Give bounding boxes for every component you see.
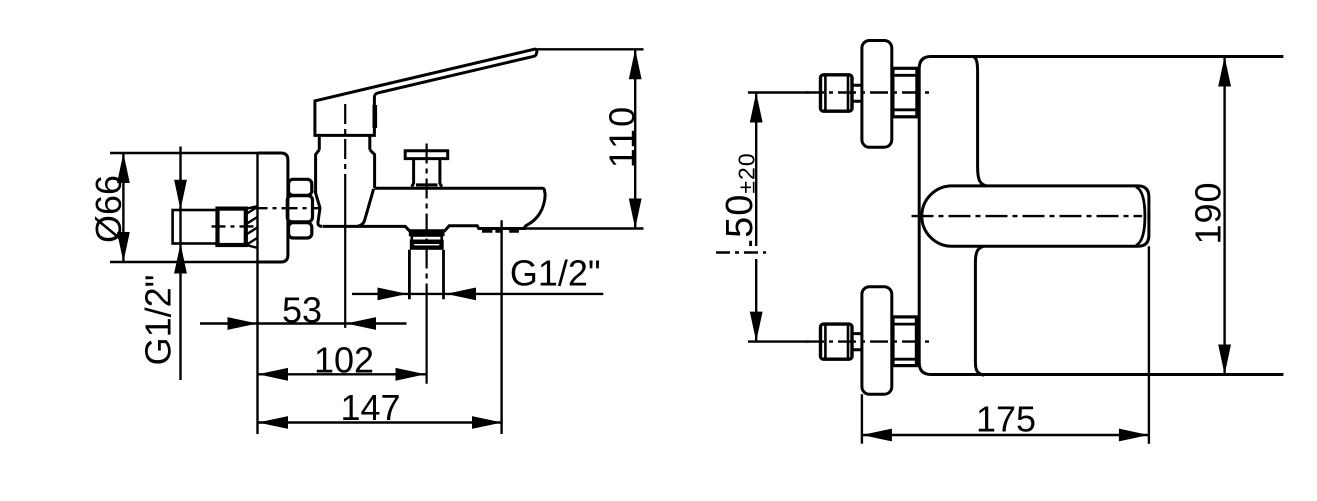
shower nipple ring2 [412,236,442,241]
faucet axis centerline [252,207,321,209]
dim G12 bottom line [352,293,603,295]
150 halo centermark [716,251,766,254]
top eccentric fitting [821,75,853,111]
bottom nut chamfer lines [893,324,916,359]
bottom eccentric fitting [821,324,853,359]
spout capsule [922,186,1149,246]
bottom fitting inner edges [825,324,848,359]
dim 190 arrows [1218,57,1231,375]
dim o66 arrows [117,153,130,262]
dim o66 line [122,153,124,262]
dim 150 arrows [750,93,763,342]
wall flange [258,153,288,262]
svg-text:190: 190 [1188,181,1229,244]
svg-text:110: 110 [601,105,642,168]
handle collar [319,135,370,149]
diverter knob stem [412,159,442,187]
wall extension line [256,153,258,434]
top escutcheon [862,41,892,148]
top axis centerline [806,91,930,93]
spout outline [323,188,545,230]
dim 102 arrows [258,368,426,381]
dim 147 arrows [258,416,502,429]
svg-text:102: 102 [314,340,374,381]
outlet extension line [500,220,502,434]
pipe axis centerline [212,225,254,227]
dim G12 bottom arrows [378,288,477,301]
inlet pipe [173,210,218,244]
top fitting inner edges [825,75,848,111]
dim 110 extension bottom [524,227,644,229]
dim 175 extension right [1148,246,1150,443]
body column and spout top edge [316,150,375,193]
handle centerline extension to 53 dim [344,186,346,328]
dim 110 arrows [629,49,642,228]
body S-curve top [974,57,986,186]
dim G12 left arrows [174,180,187,274]
top neck [852,85,862,101]
dim 110 line [634,49,636,228]
bottom escutcheon [862,287,892,394]
dim 175 extension left [861,394,863,444]
150 halo centermark white [716,246,766,259]
aerator dashes [482,230,519,233]
dim 53 line [200,322,407,324]
bottom nut [893,317,916,366]
hex nut side view: three facets [289,179,312,195]
spout axis centerline [912,215,1143,217]
dim 175 arrows [862,429,1149,442]
shower nipple ring3 thick [412,242,442,248]
lever handle [315,49,537,135]
dim 190 line [1223,57,1225,375]
top nut chamfer lines [893,75,917,110]
svg-text:53: 53 [282,290,322,331]
body/spout junction line [358,189,374,226]
handle step thick mark [372,105,377,128]
body S-curve bottom [975,246,984,375]
shower nipple ring1 [410,232,444,236]
dim 110 extension top [537,48,644,50]
body bottom line [931,373,1283,376]
dim 150 line [755,93,757,342]
svg-text:G1/2": G1/2" [138,275,179,366]
body wedge at nut [315,191,323,227]
dim 175 line [862,434,1149,436]
svg-text:175: 175 [976,399,1036,440]
dim G12 left line [179,147,181,381]
bottom axis centerline [806,340,930,342]
wall hatch [246,206,258,248]
handle centerline [344,104,346,186]
dim 53 arrows [228,317,377,330]
bottom neck [852,334,862,350]
thread box [218,209,246,245]
dim 147 line [258,421,502,423]
shower nipple pipe [409,250,443,299]
nipple centerline extension to 102 dim [426,300,428,384]
dim o66 extension bottom [110,261,258,263]
body left edge [919,57,931,375]
svg-text:147: 147 [340,387,400,428]
diverter knob cap [405,151,448,159]
spout end inner arc [1136,187,1145,245]
dim 150 extension bottom [748,340,809,342]
dim 102 line [258,373,426,375]
top nut [893,68,917,117]
body top line [931,55,1283,58]
dim o66 extension top [110,152,258,154]
dim 150 extension top [748,91,809,93]
diverter/nipple centerline [426,144,428,301]
svg-text:Ø66: Ø66 [88,175,129,243]
svg-text:G1/2": G1/2" [510,253,601,294]
